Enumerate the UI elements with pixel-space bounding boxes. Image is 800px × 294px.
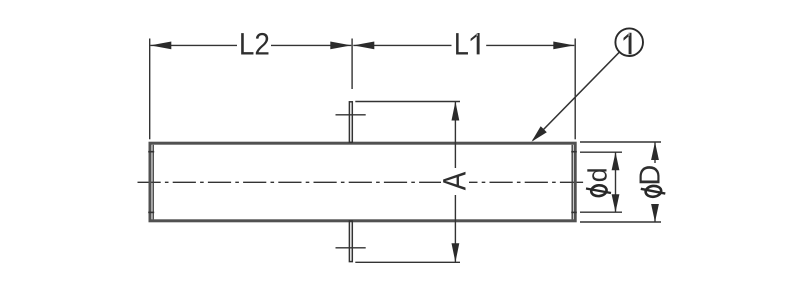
- bottom stub (cross hole boss): [349, 221, 352, 262]
- right bore edge tick lower: [571, 211, 577, 213]
- balloon leader line: [533, 52, 619, 140]
- balloon circle: [615, 28, 643, 56]
- label A mask: [441, 176, 469, 190]
- svg-text:L: L: [454, 27, 469, 62]
- left end-face inner line: [152, 145, 154, 220]
- svg-text:D: D: [635, 165, 667, 186]
- dimension A top arrowhead: [452, 102, 460, 121]
- dimension phi-D line top segment: [654, 142, 656, 163]
- dimension phi-d bottom arrowhead: [612, 194, 620, 212]
- right end-face inner line: [571, 145, 573, 220]
- svg-text:d: d: [583, 167, 613, 182]
- bottom stub cross tick: [336, 247, 366, 249]
- dimension phi-D bottom arrowhead: [651, 204, 659, 222]
- dimension phi-D top extension line: [580, 141, 661, 143]
- dimension A top extension line: [355, 101, 460, 103]
- dimension L1 line: [353, 44, 574, 46]
- extension line middle (L2/L1): [351, 39, 353, 90]
- right bore edge tick upper: [571, 151, 577, 153]
- dimension L2 line: [150, 44, 351, 46]
- dimension L1 right arrowhead: [553, 42, 574, 50]
- left bore edge tick upper: [148, 151, 154, 153]
- svg-text:L2: L2: [239, 27, 270, 62]
- label phi-D: phi symbol slash: [641, 189, 666, 194]
- extension line right (L1): [574, 39, 576, 140]
- dimension phi-d bottom extension line: [580, 211, 622, 213]
- svg-text:A: A: [437, 171, 473, 190]
- dimension phi-d line: [615, 152, 617, 212]
- label L1 digit stroke: [471, 33, 480, 54]
- dimension phi-d top arrowhead: [612, 152, 620, 170]
- dimension A bottom extension line: [355, 261, 460, 263]
- balloon leader arrowhead: [532, 126, 547, 142]
- tube body outline (thick rectangle): [150, 143, 575, 221]
- dimension phi-D line bottom segment: [654, 208, 656, 223]
- label phi-d: phi symbol slash: [586, 189, 611, 194]
- extension line left (L2): [149, 39, 151, 140]
- dimension L1 left arrowhead: [353, 42, 374, 50]
- label phi-D: phi symbol loop: [645, 185, 662, 197]
- dimension A line: [454, 102, 456, 263]
- centerline (axis, dash-dot): [138, 181, 586, 183]
- dimension L2 right arrowhead: [330, 42, 351, 50]
- label phi-d: phi symbol loop: [591, 185, 607, 197]
- dimension A bottom arrowhead: [452, 243, 460, 262]
- dimension phi-D top arrowhead: [651, 142, 659, 160]
- dimension L2 left arrowhead: [150, 42, 171, 50]
- balloon number 1: [624, 33, 632, 55]
- dimension phi-d top extension line: [580, 151, 622, 153]
- left bore edge tick lower: [148, 211, 154, 213]
- dimension phi-D bottom extension line: [580, 221, 661, 223]
- top stub (cross hole boss): [349, 102, 352, 143]
- top stub cross tick: [336, 114, 366, 116]
